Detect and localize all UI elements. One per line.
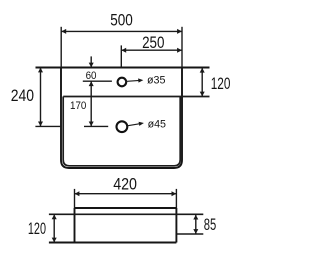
svg-text:420: 420 bbox=[113, 176, 137, 194]
svg-text:60: 60 bbox=[86, 70, 97, 82]
dimension 85 top arrowhead bbox=[193, 215, 198, 220]
dimension 250 extension line (faucet centre) bbox=[120, 45, 122, 67]
drain hole leader line bbox=[127, 124, 139, 126]
dimension 85 bottom arrowhead bbox=[193, 229, 198, 234]
dimension 120 line (side view left) bbox=[53, 214, 55, 242]
dimension 120 top arrowhead bbox=[200, 68, 205, 73]
svg-text:250: 250 bbox=[142, 34, 164, 52]
side view bottom edge with left extension bbox=[49, 242, 176, 244]
dimension 500 left arrowhead bbox=[61, 29, 66, 34]
dimension 240 line bbox=[40, 68, 42, 127]
dimension 500/250 extension line right bbox=[181, 27, 183, 68]
dimension 120 side top arrowhead bbox=[52, 214, 57, 219]
dimension 250 right arrowhead bbox=[177, 48, 182, 53]
dimension 420 right arrowhead bbox=[172, 191, 177, 196]
side view rim underside line with extensions bbox=[49, 213, 203, 215]
dimension 420 line bbox=[75, 193, 177, 195]
dimension 240 bottom extension line bbox=[35, 125, 61, 127]
svg-text:85: 85 bbox=[204, 216, 217, 234]
svg-text:170: 170 bbox=[70, 100, 86, 112]
dimension 60 upper arrow shaft bbox=[90, 56, 92, 67]
dimension 85 line bbox=[195, 215, 197, 234]
dimension 420 left arrowhead bbox=[75, 191, 80, 196]
dimension 170 line bbox=[90, 81, 92, 126]
basin inner bowl outline bbox=[63, 97, 180, 166]
dimension 240 bottom arrowhead bbox=[38, 122, 43, 127]
dimension 500 extension line left bbox=[60, 27, 62, 68]
basin outer outline (top view) bbox=[61, 68, 182, 169]
svg-text:240: 240 bbox=[11, 87, 34, 105]
dimension 120 side bottom arrowhead bbox=[52, 238, 57, 243]
side view left edge bbox=[74, 208, 76, 243]
dimension 120 bottom arrowhead bbox=[200, 92, 205, 97]
dimension 170 bottom arrowhead pointing down bbox=[89, 122, 94, 127]
faucet hole circle bbox=[118, 78, 127, 87]
svg-text:120: 120 bbox=[28, 220, 46, 238]
dimension 500 line bbox=[61, 30, 182, 32]
drain hole circle bbox=[117, 121, 128, 132]
dimension 420 extension line left bbox=[74, 189, 76, 208]
svg-text:500: 500 bbox=[110, 11, 133, 29]
dimension 170 bottom line (drain centre line) bbox=[84, 125, 108, 127]
drain hole leader arrowhead bbox=[139, 122, 144, 126]
dimension 120 line (top view right) bbox=[201, 68, 203, 97]
svg-text:ø45: ø45 bbox=[148, 119, 166, 131]
basin inner bowl top edge with right extension bbox=[63, 96, 209, 98]
side view right edge bbox=[175, 208, 177, 243]
faucet hole leader arrowhead bbox=[138, 78, 143, 82]
svg-text:ø35: ø35 bbox=[147, 75, 166, 87]
dimension 250 line bbox=[121, 49, 182, 51]
dimension 240 top arrowhead bbox=[38, 68, 43, 73]
dimension 420 extension line right bbox=[175, 189, 177, 208]
basin top edge line with left and right extension bbox=[36, 67, 210, 69]
side view top edge bbox=[75, 207, 177, 209]
faucet hole leader line bbox=[126, 80, 140, 81]
dimension 250 left arrowhead bbox=[121, 48, 126, 53]
dimension 170 top arrowhead pointing up bbox=[89, 81, 94, 86]
dimension 60 line (faucet centre line) bbox=[83, 80, 112, 82]
svg-text:120: 120 bbox=[211, 75, 231, 93]
dimension 60 upper arrowhead pointing down bbox=[89, 63, 94, 68]
dimension 500 right arrowhead bbox=[177, 29, 182, 34]
dimension 85 bottom extension line bbox=[176, 233, 203, 235]
